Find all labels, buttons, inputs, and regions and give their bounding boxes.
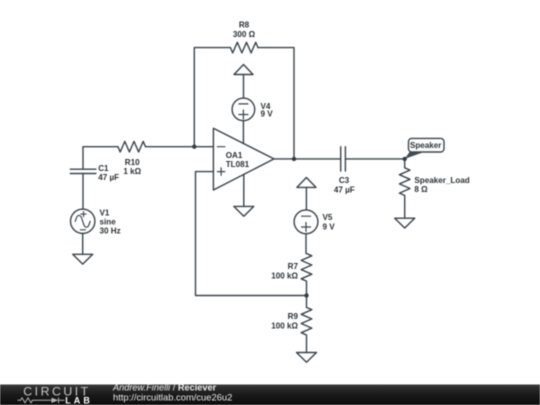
svg-text:100 kΩ: 100 kΩ	[271, 321, 298, 330]
op-amp OA1	[213, 128, 274, 190]
svg-text:300 Ω: 300 Ω	[233, 30, 256, 39]
wire C1 to V1	[82, 174, 84, 210]
svg-text:1 kΩ: 1 kΩ	[123, 167, 141, 176]
svg-text:C1: C1	[98, 164, 109, 173]
svg-text:9 V: 9 V	[261, 110, 274, 119]
wire junction to R9	[306, 296, 308, 308]
wire plus input net	[196, 172, 307, 296]
speaker tag box	[409, 138, 445, 152]
resistor R10	[118, 141, 146, 152]
resistor Speaker_Load	[399, 168, 410, 196]
ground under load	[395, 218, 415, 228]
wire arrow to V5	[305, 187, 307, 210]
wire R7 to junction	[306, 282, 308, 296]
ground under V1	[73, 254, 93, 264]
capacitor C3	[341, 147, 346, 171]
svg-text:47 µF: 47 µF	[334, 186, 355, 195]
wire load to ground	[404, 196, 406, 218]
svg-text:OA1: OA1	[226, 151, 243, 160]
wire feedback right vertical	[258, 48, 294, 159]
svg-text:100 kΩ: 100 kΩ	[271, 271, 298, 280]
wire C1 to R10	[83, 147, 118, 170]
ground under R9	[297, 353, 317, 363]
resistor R7	[301, 254, 312, 282]
svg-text:8 Ω: 8 Ω	[414, 185, 428, 194]
source V5	[294, 210, 318, 234]
svg-text:Speaker_Load: Speaker_Load	[414, 176, 469, 185]
wire op-amp to ground	[243, 174, 245, 206]
svg-text:http://circuitlab.com/cue26u2: http://circuitlab.com/cue26u2	[113, 392, 232, 403]
svg-text:47 µF: 47 µF	[98, 173, 119, 182]
resistor R9	[301, 307, 312, 335]
wire V1 to ground	[82, 234, 84, 255]
wire op-amp output	[274, 158, 341, 160]
svg-text:V1: V1	[100, 209, 110, 218]
svg-text:30 Hz: 30 Hz	[100, 227, 121, 236]
svg-text:sine: sine	[100, 217, 117, 226]
wire C3 to speaker node	[345, 158, 404, 160]
svg-text:Speaker: Speaker	[410, 141, 442, 150]
svg-text:R10: R10	[125, 158, 140, 167]
logo glyph resistor diode	[18, 398, 59, 404]
svg-text:C3: C3	[339, 176, 350, 185]
wire V5 to R7	[305, 234, 307, 254]
wire V4 to op-amp	[242, 121, 244, 144]
node R7 R9 junction	[304, 293, 308, 297]
capacitor C1	[70, 169, 96, 173]
svg-text:V5: V5	[323, 213, 333, 222]
wire arrow to V4	[243, 75, 245, 99]
source V1	[71, 209, 95, 233]
node speaker junction	[403, 157, 407, 161]
wire R10 to op-amp minus	[146, 146, 214, 148]
speaker tag pointer	[405, 152, 424, 159]
power arrow above V4	[234, 65, 253, 75]
node output junction	[292, 157, 296, 161]
wire speaker node down	[404, 159, 406, 168]
svg-text:R8: R8	[239, 20, 250, 29]
node minus junction	[192, 145, 196, 149]
ground under op-amp	[234, 206, 254, 216]
resistor R8	[230, 42, 258, 53]
svg-text:LAB: LAB	[65, 395, 93, 405]
wire feedback left vertical	[194, 48, 230, 147]
wire R9 to ground	[306, 336, 308, 353]
svg-text:TL081: TL081	[226, 160, 250, 169]
power arrow above V5	[297, 178, 316, 188]
source V4	[232, 98, 255, 121]
svg-text:R9: R9	[288, 312, 299, 321]
svg-text:R7: R7	[288, 262, 299, 271]
svg-text:9 V: 9 V	[323, 222, 336, 231]
